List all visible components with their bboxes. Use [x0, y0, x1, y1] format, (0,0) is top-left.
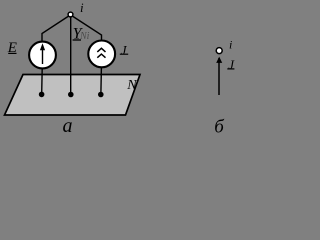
svg-text:а: а	[63, 115, 73, 137]
equivalent current source arrow (right diagram)	[218, 58, 220, 95]
plane connection dot 1	[39, 92, 45, 98]
plane N (neutral plane)	[5, 75, 141, 116]
svg-text:Ni: Ni	[79, 31, 90, 42]
wire node i to Y branch (vertical)	[70, 17, 72, 93]
node i (top node, left diagram)	[68, 12, 73, 17]
svg-text:i: i	[80, 0, 84, 15]
svg-text:i: i	[229, 38, 232, 52]
svg-text:б: б	[214, 117, 225, 138]
wire J source to plane	[100, 67, 103, 93]
plane connection dot 3	[98, 92, 104, 98]
EMF source E (circle with up arrow)	[29, 42, 56, 69]
node i (right diagram)	[216, 48, 222, 54]
wire node i to J branch (diagonal + stub)	[72, 16, 102, 42]
plane connection dot 2	[68, 92, 74, 98]
wire node i to E branch (diagonal + stub)	[42, 16, 70, 43]
svg-text:N: N	[126, 78, 137, 93]
current source J (circle with double chevron)	[88, 41, 115, 68]
wire E source to plane	[41, 68, 44, 93]
